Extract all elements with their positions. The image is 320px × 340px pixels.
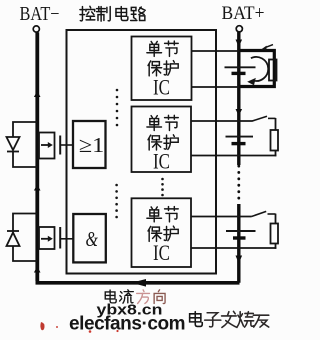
svg-text:&: & [86,227,99,251]
svg-text:elecfans·com: elecfans·com [69,314,185,335]
switch S1 closing arrow [266,45,274,48]
cell 1 positive plate [225,66,256,68]
diode D2 (body diode, cathode up) [7,231,20,246]
transistor Q2 box with channel arrow [39,227,55,249]
cell 3 negative plate [233,236,246,239]
resistor R3 [271,224,279,244]
cell 3 positive plate [226,230,256,232]
wire branch 2 down to resistor [275,118,277,130]
cell 2 positive plate [226,136,254,138]
node line cell1 bottom (sense wire) [192,86,241,88]
node line cell3 bottom (sense wire) [191,247,276,249]
wire branch 3 resistor to bottom node [275,244,277,249]
svg-text:≥1: ≥1 [79,133,105,157]
node line cell1 top (sense wire) [192,50,241,52]
control circuit box [67,30,217,274]
arrow up on BAT- wire lower [34,267,41,273]
protection IC U1 label 单节保护IC [147,41,178,99]
cell 2 negative plate [232,142,246,145]
resistor R2 [271,130,279,151]
MOSFET Q1 body loop [13,122,37,167]
switch S2 (open lever) [252,116,267,121]
arrow left on bottom wire [132,279,147,287]
label 电流方向 (current direction) [105,290,165,304]
terminal BAT- [33,26,39,32]
dotted ellipsis between IC2 and IC3 [161,178,164,197]
wire gate Q2 to AND gate [60,238,73,240]
arrow down on BAT+ wire [236,40,243,48]
arrow down on battery line below cell 3 [236,256,243,264]
cell 1 negative plate [232,72,246,75]
circular current arrow in cell1 loop [251,57,268,81]
watermark red drip [40,322,44,330]
terminal BAT+ [236,26,242,32]
cell1 bypass loop (thick, current flowing) [239,51,274,87]
watermark 电子发烧友 [190,311,269,327]
dotted ellipsis left of ICs upper [116,89,119,127]
svg-text:BAT−: BAT− [20,4,60,25]
dotted ellipsis left of ICs lower [115,184,118,219]
wire battery line dotted continuation [237,166,240,204]
wire branch 3 down to resistor [275,214,277,224]
watermark small drips [89,330,92,333]
protection IC U2 label 单节保护IC [147,115,178,173]
wire gate Q1 to OR gate [60,144,73,146]
switch S3 (open lever) [252,211,267,216]
node line cell2 top (sense wire) [191,120,253,122]
protection IC U2 box [132,107,192,173]
node line cell3 top (sense wire) [191,216,252,218]
MOSFET Q2 body loop [13,214,37,262]
protection IC U1 box [132,37,192,101]
gate plate Q2 [59,227,61,249]
transistor Q1 box with channel arrow [39,133,55,159]
wire battery line lower solid [237,204,240,283]
svg-text:BAT+: BAT+ [222,3,265,24]
protection IC U3 label 单节保护IC [147,207,178,265]
label 控制电路 (control circuit) [80,6,145,21]
resistor R1 [269,60,277,81]
wire BAT- main (left, thick) [35,32,39,281]
arrow up on BAT- wire middle [34,185,41,191]
OR gate U4 (>=1) [73,121,106,168]
wire BAT+ main (right, thick, solid upper part) [237,32,240,165]
arrow up on BAT- wire upper [34,91,41,97]
node line cell2 bottom (sense wire) [191,155,276,157]
AND gate U5 (&) [73,214,106,262]
wire bottom return (thick) [36,281,240,285]
arrow down on battery line above node 2 [236,109,243,116]
diode D1 (body diode, cathode down) [7,137,20,152]
wire branch 2 resistor to bottom node [275,151,277,157]
protection IC U3 box [132,198,192,267]
gate plate Q1 [59,136,61,155]
